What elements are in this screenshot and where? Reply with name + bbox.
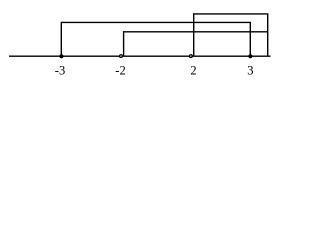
filled point 3 <box>248 54 252 58</box>
svg-text:-2: -2 <box>115 64 125 78</box>
open point -2 <box>120 55 123 58</box>
svg-text:3: 3 <box>247 64 253 78</box>
interval bracket [-3,3] <box>61 22 250 56</box>
interval bracket (2,inf) <box>194 14 268 56</box>
svg-text:-3: -3 <box>55 64 65 78</box>
filled point -3 <box>59 54 63 58</box>
interval bracket (-2,inf) <box>124 32 268 56</box>
number line <box>9 55 271 57</box>
open point 2 <box>190 55 193 58</box>
svg-text:2: 2 <box>190 64 196 78</box>
